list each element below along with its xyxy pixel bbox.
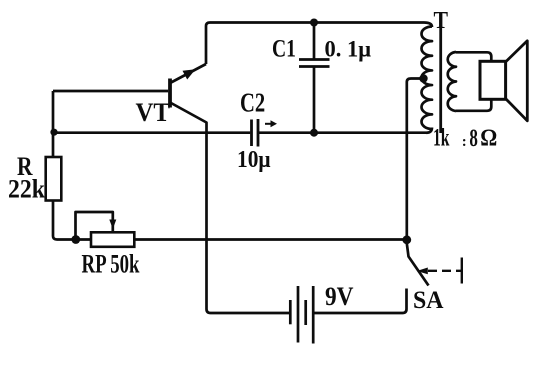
svg-text:C2: C2 [240, 88, 265, 118]
svg-text:22k: 22k [8, 174, 45, 204]
svg-text:Ω: Ω [480, 126, 497, 152]
svg-text:T: T [434, 8, 449, 34]
svg-text:0. 1μ: 0. 1μ [325, 37, 372, 62]
svg-text:RP 50k: RP 50k [82, 250, 140, 279]
svg-text:1k: 1k [433, 125, 450, 152]
svg-text:8: 8 [469, 125, 478, 152]
svg-text:9V: 9V [325, 282, 354, 311]
svg-text:SA: SA [413, 287, 444, 314]
svg-text:C1: C1 [272, 36, 296, 63]
svg-text:VT: VT [136, 98, 171, 127]
svg-text:10μ: 10μ [237, 147, 271, 173]
svg-text::: : [462, 134, 467, 150]
